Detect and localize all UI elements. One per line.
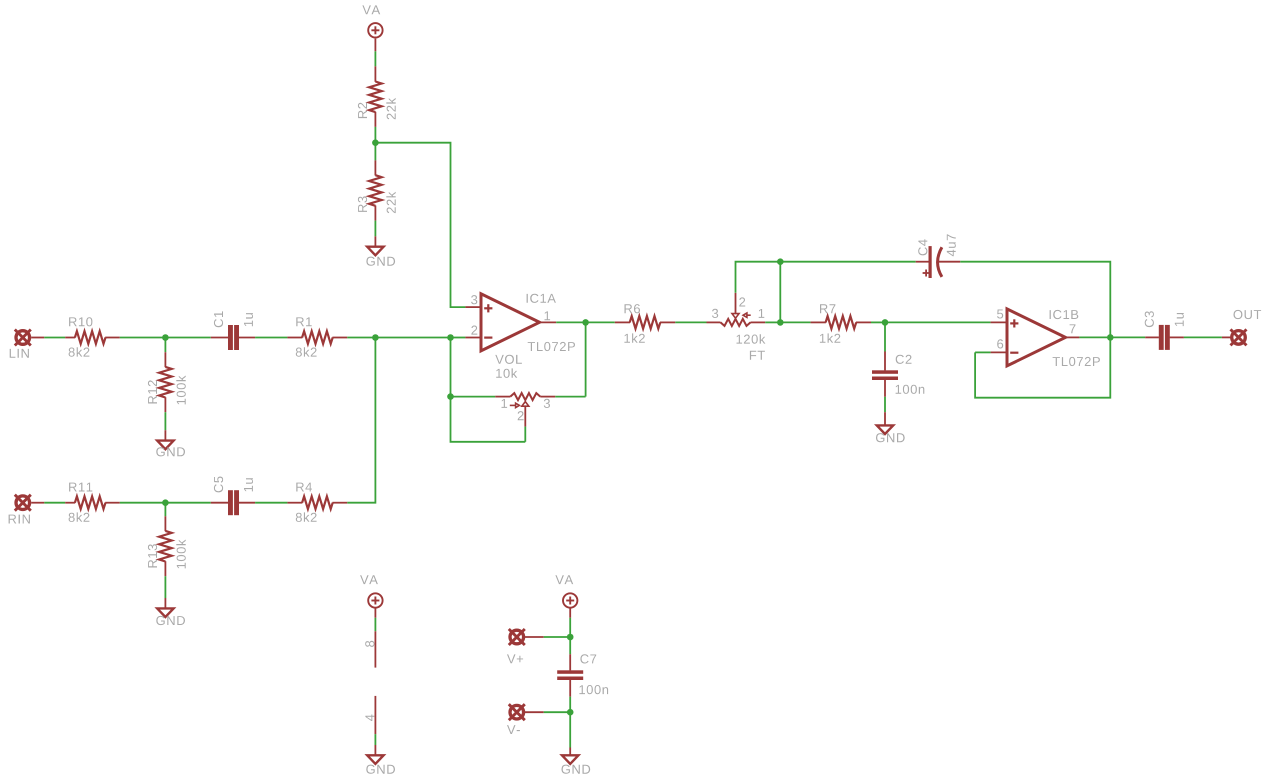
wire VOL wiper loop (524, 427, 526, 442)
junction node IC1A output (582, 319, 589, 326)
VOL wiper arrow (522, 402, 529, 407)
wire node to R7 (780, 321, 810, 323)
supply VA (decoupling) (563, 593, 577, 607)
wire C3 to OUT (1184, 336, 1222, 338)
pin number 1 (FT) (759, 309, 765, 318)
label C3 (1145, 311, 1154, 327)
resistor R13 (164, 516, 166, 531)
wire output node to R6 (586, 321, 615, 323)
wire output node to C3 (1110, 336, 1145, 338)
label IC1A (527, 294, 556, 303)
wire inverting node down to VOL (450, 338, 452, 397)
label C5 (214, 477, 223, 493)
value 1u (C3) (1175, 313, 1184, 326)
wire R7 to C2 node (871, 321, 885, 323)
junction node L/R mix (372, 334, 379, 341)
pin number 4 (365, 715, 374, 722)
pin 5 stub IC1B (991, 321, 1007, 323)
ground (decoupling) (562, 755, 578, 764)
resistor R3 (374, 160, 376, 175)
label R11 (69, 483, 92, 492)
value 100k (R13) (176, 540, 186, 569)
resistor R11 (65, 502, 75, 504)
wire FT pin1 to node (765, 321, 780, 323)
value TL072P (IC1A) (528, 342, 575, 351)
capacitor C5 (211, 502, 228, 504)
value 1k2 (R6) (624, 333, 644, 342)
potentiometer VOL 10k (495, 396, 510, 398)
wire node to R12 (164, 338, 166, 353)
wire VOL pin3 up to output node (555, 396, 585, 398)
wire RIN to R11 (31, 502, 44, 504)
pin number 6 (997, 339, 1003, 348)
wire node to IC1B pin 5 (885, 321, 991, 323)
potentiometer FT 120k (707, 321, 721, 323)
junction node FT/R7 (777, 319, 784, 326)
value 100n (C2) (896, 385, 925, 394)
value 1k2 (R7) (820, 333, 840, 342)
connector OUT (1231, 329, 1247, 345)
wire C4 to output node (960, 262, 1110, 338)
wire R3 to ground (374, 221, 376, 237)
pin number 3 (FT) (712, 309, 718, 318)
wire node to R3 (374, 143, 376, 161)
connector V+ (509, 629, 525, 645)
wire node to C5 (165, 502, 210, 504)
value 22k (R3) (386, 192, 395, 213)
wire R6 to FT pot (675, 321, 706, 323)
resistor R12 (164, 352, 166, 367)
wire C2 to ground (884, 397, 886, 412)
wire VA to V+ node (569, 608, 571, 618)
wire C5 to R4 (255, 502, 287, 504)
value 4u7 (C4) (947, 234, 956, 256)
capacitor C1 (211, 337, 228, 339)
pin number 7 (1070, 324, 1076, 333)
pin number 2 (FT) (739, 297, 745, 306)
pin number 2 (VOL) (518, 411, 524, 420)
label R1 (296, 317, 311, 326)
capacitor C2 (884, 352, 886, 371)
supply VA (top) (368, 23, 382, 37)
label R6 (625, 304, 641, 313)
label C1 (214, 311, 223, 327)
junction node V- (567, 709, 574, 716)
wire R10 to node (120, 337, 166, 339)
label C7 (580, 654, 596, 663)
resistor R7 (811, 321, 826, 323)
label IC1B (1050, 310, 1079, 319)
ground (IC1 power) (367, 755, 383, 764)
wire pin 4 to ground (374, 734, 376, 745)
ground (C2) (877, 425, 893, 434)
label R10 (69, 317, 92, 326)
capacitor C7 (569, 654, 571, 670)
wire R12 to ground (164, 412, 166, 430)
connector LIN (15, 330, 31, 346)
resistor R10 (65, 337, 75, 339)
wire IC1B output to node (1079, 336, 1110, 338)
label C2 (896, 355, 912, 364)
op-amp IC1B (1007, 309, 1066, 366)
pin 7 stub IC1B output (1066, 336, 1080, 338)
wire VA to R2 (374, 39, 376, 52)
wire feedback node down to main line (779, 262, 781, 323)
wire output IC1A to node (556, 321, 585, 323)
pin number 1 (VOL) (502, 399, 508, 408)
wire node down to C2 (884, 322, 886, 351)
wire R13 to ground (164, 576, 166, 598)
pin number 5 (997, 310, 1003, 319)
pin 3 stub IC1A (465, 306, 481, 308)
wire FT wiper to feedback line (736, 262, 781, 293)
junction node feedback top (777, 258, 784, 265)
connector RIN (15, 495, 31, 511)
label R4 (296, 483, 312, 492)
wire feedback node to C4 (780, 261, 915, 263)
label R12 (148, 380, 157, 403)
resistor R4 (287, 502, 302, 504)
value 1u (C1) (244, 313, 253, 326)
value 10k (VOL) (496, 368, 517, 378)
junction node inverting input (447, 334, 454, 341)
label VOL (495, 355, 522, 364)
value 8k2 (R4) (296, 512, 317, 522)
value 8k2 (R11) (69, 512, 90, 522)
plus mark (C4) (923, 272, 930, 274)
pin 8 stub (IC1 power) (374, 631, 376, 667)
wire node to C1 (165, 337, 210, 339)
wire node to C7 (569, 637, 571, 654)
pin number 1 (545, 311, 551, 320)
label C4 (918, 239, 927, 255)
resistor R1 (287, 337, 302, 339)
label FT (750, 351, 765, 360)
value TL072P (IC1B) (1053, 357, 1100, 366)
junction node VOL pin1 (447, 393, 454, 400)
connector V- (509, 704, 525, 720)
ground (R12) (157, 441, 173, 450)
VOL adjust arrow (510, 404, 516, 406)
wire R4 up to mix node (347, 338, 375, 503)
pin number 3 (VOL) (544, 399, 550, 408)
ground (R13) (157, 608, 173, 617)
capacitor C3 (1145, 336, 1159, 338)
label 120k (FT) (737, 334, 766, 344)
junction node V+ (567, 634, 574, 641)
value 1u (C5) (244, 478, 253, 491)
resistor R6 (615, 321, 630, 323)
wire IC1B feedback loop pin 6 (975, 351, 991, 353)
wire node to R13 (164, 503, 166, 517)
wire R1 to op-amp pin 2 (347, 337, 450, 339)
label R3 (358, 196, 367, 212)
capacitor C4 (polarized) (916, 261, 929, 263)
value 8k2 (R1) (296, 347, 317, 357)
label R7 (820, 304, 835, 313)
value 8k2 (R10) (69, 347, 90, 357)
wire V+ to node (525, 636, 544, 638)
pin 6 stub IC1B (991, 351, 1007, 353)
wire LIN to R10 (31, 337, 44, 339)
pin 4 stub (IC1 power) (374, 696, 376, 734)
pin number 3 (471, 295, 477, 304)
op-amp IC1A (481, 294, 540, 351)
junction node R2/R3 (372, 139, 379, 146)
value 22k (R2) (386, 98, 395, 119)
FT adjust arrow (747, 314, 751, 316)
junction node IC1B output (1107, 334, 1114, 341)
wire R11 to node (120, 502, 166, 504)
label R2 (358, 103, 367, 118)
wire R2 to node (374, 127, 376, 143)
junction node RIN/R13 (162, 499, 169, 506)
pin number 2 (471, 326, 477, 335)
wire bias node to op-amp pin 3 (375, 143, 465, 307)
junction node R7/C2 (882, 319, 889, 326)
wire node to VOL pin 1 (451, 396, 496, 398)
label R13 (148, 544, 157, 567)
wire V- to node (525, 711, 544, 713)
pin number 8 (365, 641, 374, 647)
wire C7 to V- node (569, 697, 571, 713)
wire VA to pin 8 (374, 608, 376, 618)
junction node LIN/R12 (162, 334, 169, 341)
wire C1 to R1 (255, 337, 287, 339)
value 100k (R12) (176, 376, 186, 405)
FT wiper arrow (735, 293, 737, 314)
pin 1 stub IC1A output (540, 321, 557, 323)
supply VA (IC power) (368, 593, 382, 607)
value 100n (C7) (579, 685, 608, 694)
ground (R3) (367, 247, 383, 256)
resistor R2 (374, 66, 376, 82)
wire node to ground (569, 712, 571, 747)
pin 2 stub IC1A (465, 337, 481, 339)
